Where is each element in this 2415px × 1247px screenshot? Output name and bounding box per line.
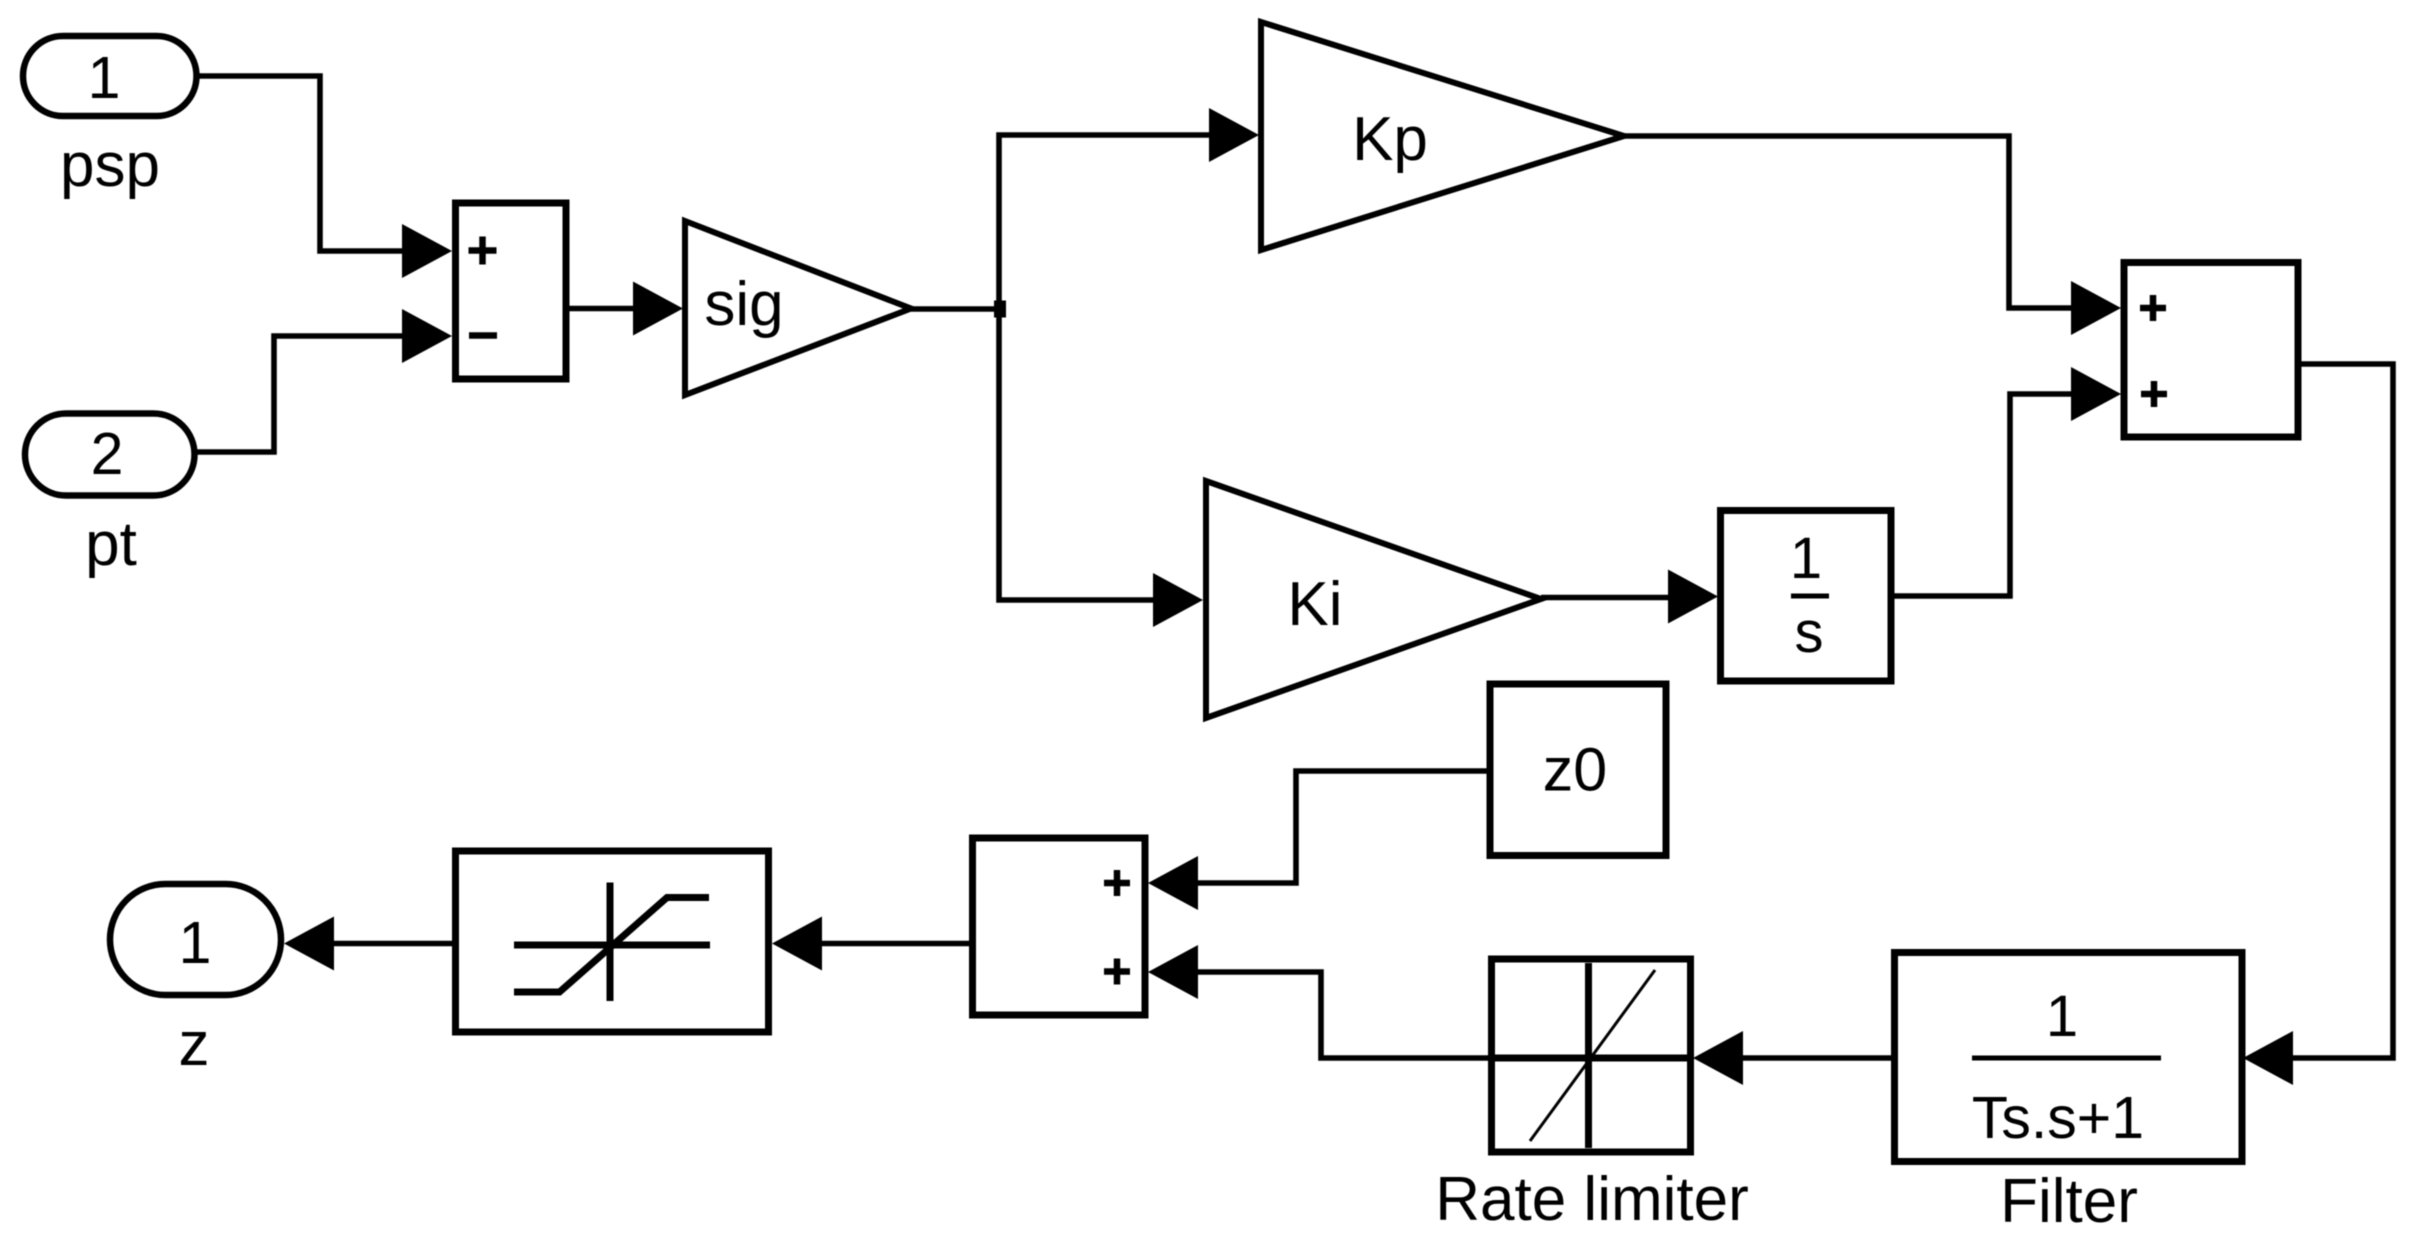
svg-text:psp: psp [60, 131, 160, 200]
svg-text:Ts.s+1: Ts.s+1 [1972, 1085, 2144, 1151]
svg-text:Ki: Ki [1287, 570, 1342, 639]
svg-text:Rate limiter: Rate limiter [1435, 1165, 1749, 1234]
svg-text:Filter: Filter [2000, 1167, 2138, 1236]
svg-text:Kp: Kp [1352, 105, 1428, 174]
svg-text:s: s [1795, 600, 1824, 665]
svg-text:1: 1 [1790, 526, 1822, 591]
svg-text:pt: pt [85, 510, 137, 579]
svg-text:2: 2 [91, 421, 124, 487]
svg-text:z0: z0 [1543, 736, 1607, 804]
svg-text:1: 1 [179, 910, 212, 976]
svg-text:z: z [179, 1010, 210, 1079]
svg-text:sig: sig [704, 270, 783, 339]
svg-text:1: 1 [2046, 984, 2078, 1049]
svg-text:1: 1 [88, 45, 121, 111]
